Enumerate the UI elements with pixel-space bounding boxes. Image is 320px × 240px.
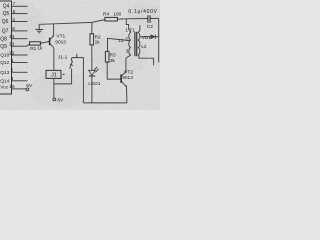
IC pin stub Q13 pin2 xyxy=(12,71,28,73)
IC pin stub Q12 pin1 xyxy=(12,62,28,64)
IC pin stub Q10 pin15 xyxy=(12,54,28,56)
transformer T1 winding L2 xyxy=(138,33,140,55)
relay contact J1-1 xyxy=(70,61,73,69)
resistor R3 xyxy=(105,51,109,62)
IC pin stub VDD pin16 wire xyxy=(12,88,26,90)
wire tap T1 terminal2 to R3 xyxy=(108,38,130,51)
IC pin stub Q8 pin14 xyxy=(12,38,28,40)
transistor VT2 9013 xyxy=(120,74,122,82)
transformer T1 core xyxy=(134,32,136,56)
IC pin stub Q9 pin13 wire to R1 xyxy=(12,45,28,47)
wire VT1 emitter to J1 xyxy=(53,48,55,71)
IC pin stub Q5 pin5 xyxy=(12,13,28,15)
LED LED1 xyxy=(91,45,93,70)
transformer T1 winding L1 xyxy=(129,33,131,55)
IC pin stub Q6 pin4 xyxy=(12,21,28,23)
relay coil J1 xyxy=(46,70,61,78)
wire L2 bottom to electrode xyxy=(139,55,154,65)
wire L2 top stub xyxy=(138,25,140,32)
wire junction to relay contact xyxy=(54,69,72,84)
top rail wire xyxy=(39,20,105,25)
ground xyxy=(38,24,40,29)
IC U1 box xyxy=(0,1,12,94)
capacitor C2 xyxy=(147,15,149,22)
diode VD1 xyxy=(140,36,151,38)
wire L1 bottom to VT2 collector xyxy=(126,55,131,58)
resistor R1 xyxy=(30,42,41,45)
right rail wire xyxy=(158,18,160,62)
bottom rail xyxy=(83,102,127,104)
IC pin stub Q7 pin6 xyxy=(12,30,28,32)
background xyxy=(0,0,160,110)
terminal 6V (battery) xyxy=(53,98,56,101)
IC pin stub Q14 pin3 xyxy=(12,80,28,82)
wire R3 to VT2 base xyxy=(107,62,120,79)
wire contact top to bottom rail xyxy=(72,58,84,103)
transistor VT1 9013 xyxy=(49,38,51,45)
resistor R2 xyxy=(91,22,93,33)
wire J1 to 6V terminal xyxy=(53,78,55,98)
terminal 6V (pin16) xyxy=(26,88,29,91)
IC pin stub Q4 pin7 xyxy=(12,5,28,7)
wire rail to T1 terminal1 xyxy=(126,19,131,33)
